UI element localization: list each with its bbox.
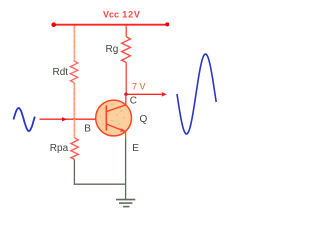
svg-text:Rdt: Rdt bbox=[53, 67, 69, 78]
svg-text:Rpa: Rpa bbox=[50, 143, 69, 154]
svg-text:Q: Q bbox=[140, 114, 148, 125]
svg-text:Vcc: Vcc bbox=[103, 10, 119, 20]
svg-text:E: E bbox=[132, 143, 139, 154]
svg-text:B: B bbox=[84, 124, 91, 135]
svg-text:12V: 12V bbox=[122, 10, 140, 20]
svg-text:7 V: 7 V bbox=[132, 81, 146, 91]
svg-text:C: C bbox=[130, 96, 137, 107]
svg-text:Rg: Rg bbox=[106, 44, 119, 55]
